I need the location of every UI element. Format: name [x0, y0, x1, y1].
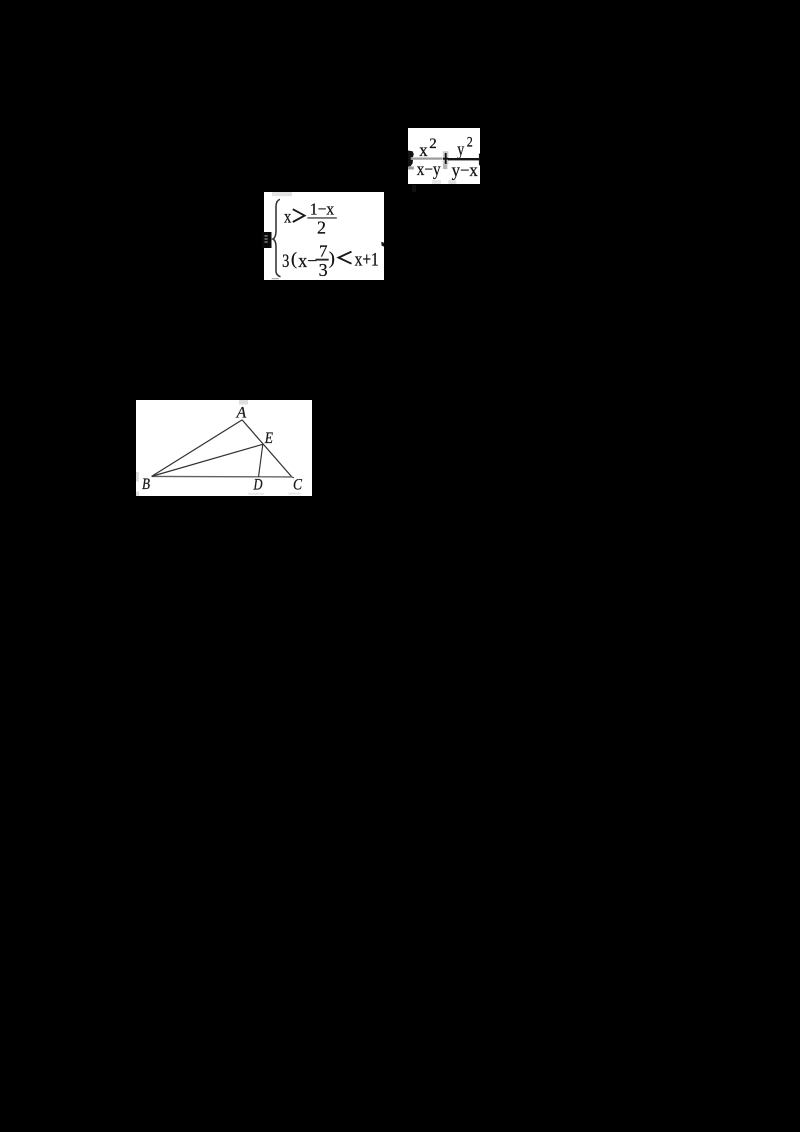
svg-text:x: x — [284, 206, 291, 226]
hook at C end — [292, 476, 294, 479]
left-edge black block artifact — [262, 232, 272, 248]
gray patch artifact behind plus — [443, 151, 449, 164]
left-edge light smudge near B — [136, 472, 139, 482]
svg-text:x: x — [419, 140, 427, 160]
bottom light smudge 1 — [432, 180, 441, 184]
svg-text:2: 2 — [429, 136, 437, 152]
cevian BE — [152, 444, 263, 476]
bottom light smudge under C — [288, 492, 301, 494]
svg-text:E: E — [264, 430, 274, 447]
right-edge scan artifact — [479, 154, 480, 166]
svg-text:y−x: y−x — [452, 160, 478, 180]
segment ED — [259, 444, 263, 477]
fraction bar (1-x)/2 — [307, 217, 336, 219]
svg-text:C: C — [293, 476, 303, 493]
svg-text:(: ( — [291, 249, 297, 270]
left-edge scan artifact blob — [408, 151, 414, 167]
right-edge small black mark — [381, 242, 384, 247]
faint dark smudge below fraction panel — [412, 185, 416, 192]
side AB — [152, 420, 243, 477]
bottom-left corner light smudge — [136, 492, 139, 496]
svg-text:x+1: x+1 — [355, 251, 379, 271]
white panel: system of inequalities — [264, 192, 384, 280]
base BC — [152, 475, 292, 478]
left curly brace of system — [273, 199, 281, 276]
svg-text:B: B — [142, 476, 150, 493]
svg-text:A: A — [236, 405, 247, 422]
gray artifact under left blob — [408, 167, 414, 170]
svg-text:3: 3 — [282, 252, 289, 272]
gray artifact tail under plus — [443, 165, 447, 170]
svg-text:D: D — [253, 476, 263, 493]
gray dash under brace bottom — [272, 278, 279, 279]
svg-text:1−x: 1−x — [310, 199, 335, 218]
svg-text:x−y: x−y — [417, 159, 441, 179]
bottom light smudge under D — [248, 493, 264, 495]
bottom light smudge 2 — [448, 180, 456, 184]
fraction bar 7/3 — [316, 259, 329, 261]
svg-text:): ) — [329, 248, 335, 269]
svg-text:x−: x− — [298, 251, 317, 272]
inequality 1: greater-than sign — [293, 209, 305, 222]
svg-text:3: 3 — [319, 260, 328, 280]
fraction bar (x-y), gray — [411, 158, 443, 160]
svg-text:y: y — [457, 139, 464, 159]
svg-text:7: 7 — [319, 241, 328, 260]
less-than sign — [339, 252, 352, 264]
fraction bar (y-x), black — [448, 158, 479, 160]
white panel: fraction expression x^2/(x-y) + y^2/(y-x) — [408, 128, 480, 184]
svg-text:2: 2 — [317, 218, 326, 238]
white panel: triangle figure ABCDE — [136, 400, 312, 496]
svg-text:2: 2 — [467, 135, 473, 151]
side AC through E — [242, 420, 292, 477]
top gray smudge — [272, 192, 292, 196]
top gray smudge above A — [239, 400, 248, 405]
plus sign between fractions (cross bars) — [443, 153, 448, 164]
